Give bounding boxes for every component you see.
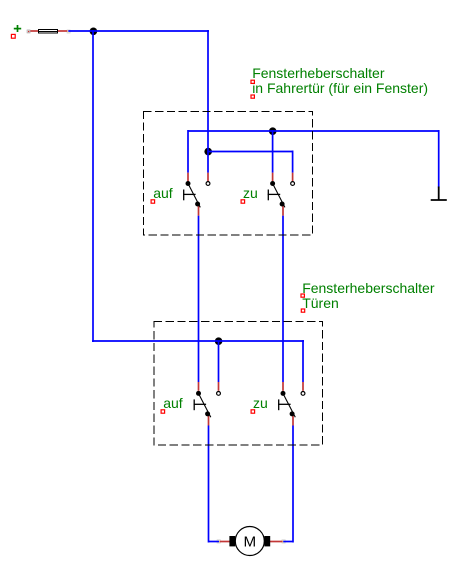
svg-text:Fensterheberschalter: Fensterheberschalter — [302, 280, 435, 296]
svg-text:zu: zu — [243, 185, 258, 201]
svg-text:zu: zu — [253, 395, 268, 411]
svg-text:in Fahrertür (für ein Fenster): in Fahrertür (für ein Fenster) — [252, 80, 428, 96]
svg-text:Türen: Türen — [302, 295, 339, 311]
svg-text:M: M — [243, 534, 256, 551]
svg-text:Fensterheberschalter: Fensterheberschalter — [252, 65, 385, 81]
svg-text:auf: auf — [163, 395, 183, 411]
svg-text:auf: auf — [153, 185, 173, 201]
